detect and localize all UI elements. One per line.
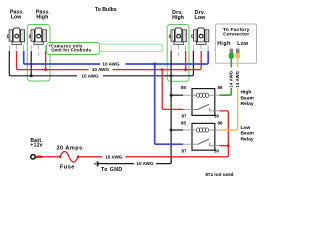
svg-text:14 AWG: 14 AWG bbox=[229, 71, 234, 88]
svg-text:10 AWG: 10 AWG bbox=[105, 154, 123, 159]
label Drv. Low bbox=[195, 10, 207, 21]
wire red fuse to label gap bbox=[78, 156, 102, 158]
relay1 pin 86 lead green bbox=[215, 88, 232, 95]
svg-text:High: High bbox=[36, 14, 48, 20]
relay2 switch bbox=[192, 139, 215, 146]
svg-text:10 AWG: 10 AWG bbox=[92, 67, 110, 72]
relay1 switch bbox=[192, 104, 215, 111]
svg-text:87: 87 bbox=[181, 114, 187, 119]
svg-text:86: 86 bbox=[217, 85, 223, 90]
svg-text:High: High bbox=[241, 90, 252, 96]
wire red battery to fuse bbox=[36, 156, 61, 158]
wire ground bus label gap right segment bbox=[103, 51, 193, 76]
junction relay2 85 bbox=[170, 129, 173, 132]
svg-text:To Bulbs: To Bulbs bbox=[95, 7, 117, 13]
relay2 coil bbox=[192, 128, 215, 132]
wire blue bus right segment bbox=[126, 51, 209, 64]
svg-text:14 AWG: 14 AWG bbox=[235, 71, 240, 88]
wire black ground right segment bbox=[156, 160, 171, 164]
label Batt +12v bbox=[30, 138, 43, 148]
svg-text:Low: Low bbox=[11, 14, 23, 20]
wire red Drv High right pin bbox=[185, 51, 187, 70]
headlamp connector Pass. Low bbox=[7, 28, 24, 51]
svg-text:87: 87 bbox=[181, 148, 187, 153]
junction Pass High ground bbox=[30, 74, 33, 77]
high beam relay box U1 bbox=[192, 89, 215, 116]
wire red bus right segment bbox=[113, 51, 202, 70]
relay1 pin 87 stub bbox=[183, 108, 192, 110]
svg-text:Beam: Beam bbox=[241, 95, 255, 101]
wire blue vertical to low relay 87 bbox=[155, 64, 183, 144]
callout note Camaros only bbox=[47, 43, 100, 55]
relay1 pin 30 lead red bbox=[215, 111, 229, 157]
svg-text:High: High bbox=[217, 41, 230, 47]
svg-text:Connector: Connector bbox=[223, 32, 249, 38]
headlamp connector Drv. Low bbox=[192, 28, 209, 51]
factory terminal High (green) bbox=[229, 49, 234, 59]
wire black ground left segment bbox=[99, 163, 135, 165]
label Low Beam Relay bbox=[241, 125, 255, 143]
junction relay1 85 bbox=[170, 94, 173, 97]
svg-text:Low: Low bbox=[241, 125, 251, 131]
svg-text:85: 85 bbox=[181, 121, 187, 126]
callout leader lines bbox=[100, 44, 163, 51]
headlamp connector Pass. High bbox=[29, 28, 46, 51]
svg-text:Low: Low bbox=[195, 15, 207, 21]
junction main vertical at ground bus bbox=[170, 74, 173, 77]
svg-text:Beam: Beam bbox=[241, 131, 255, 137]
relay1 pin labels bbox=[181, 85, 223, 118]
wire orange factory Low upper bbox=[237, 59, 239, 68]
green option box around Drv. High bbox=[167, 25, 189, 82]
relay2 pin 87 stub bbox=[183, 143, 192, 145]
svg-text:To GND: To GND bbox=[101, 167, 123, 173]
fuse F1 20 Amps bbox=[59, 152, 80, 163]
ground symbol bbox=[94, 161, 98, 166]
relay1 pin 85 lead bbox=[171, 94, 192, 96]
label Pass. Low bbox=[10, 9, 25, 20]
headlamp connector Drv. High bbox=[169, 28, 186, 51]
relay2 pin 86 lead orange bbox=[215, 88, 238, 130]
svg-text:30: 30 bbox=[214, 148, 220, 153]
wire black Drv High left pin down to relays and ground bbox=[170, 51, 172, 164]
wire black Pass Low left pin to ground bus bbox=[9, 51, 77, 76]
Pass High center pin stub bbox=[37, 53, 39, 56]
wire red vertical to high relay 87 bbox=[162, 70, 183, 110]
relay2 pin labels bbox=[181, 121, 223, 154]
svg-text:86: 86 bbox=[217, 121, 223, 126]
junction blue bus to relay feed bbox=[153, 62, 156, 65]
wire red Pass High right pin bbox=[45, 51, 47, 70]
svg-text:Omit for Firebirds: Omit for Firebirds bbox=[51, 48, 91, 53]
svg-text:20 Amps: 20 Amps bbox=[56, 145, 82, 151]
svg-text:High: High bbox=[172, 15, 184, 21]
relay2 pin 30 lead red bbox=[215, 145, 229, 147]
factory connector box bbox=[216, 24, 257, 63]
label Pass. High bbox=[36, 9, 51, 20]
svg-text:10 AWG: 10 AWG bbox=[81, 73, 99, 78]
wire red feed to relays bbox=[126, 156, 228, 158]
svg-text:+12v: +12v bbox=[30, 142, 42, 148]
svg-text:30: 30 bbox=[214, 114, 220, 119]
relay2 pin 85 lead bbox=[171, 129, 192, 131]
junction Drv High red bbox=[184, 68, 187, 71]
svg-text:10 AWG: 10 AWG bbox=[102, 62, 120, 67]
wire blue Pass Low right pin to blue bus bbox=[24, 51, 100, 64]
svg-text:85: 85 bbox=[181, 85, 187, 90]
junction relay2 30 bbox=[227, 144, 230, 147]
junction red bus to relay feed bbox=[161, 68, 164, 71]
low beam relay box U2 bbox=[192, 123, 215, 150]
junction Pass High red bbox=[44, 68, 47, 71]
wire black Pass High left pin bbox=[30, 51, 32, 76]
relay1 coil bbox=[192, 93, 215, 97]
factory terminal Low (orange) bbox=[235, 49, 240, 59]
label Drv. High bbox=[172, 10, 184, 21]
wire red Pass Low center pin to red bus bbox=[17, 51, 89, 70]
green option box around Pass. High bbox=[27, 25, 50, 82]
svg-text:Relay: Relay bbox=[241, 136, 254, 142]
label High Beam Relay bbox=[241, 90, 255, 108]
svg-text:10 AWG: 10 AWG bbox=[136, 161, 154, 166]
svg-text:Low: Low bbox=[237, 41, 248, 47]
wire green factory High to relay1 86 upper bbox=[230, 59, 232, 68]
Drv High center pin stub bbox=[177, 53, 179, 56]
svg-text:87a not used: 87a not used bbox=[205, 172, 233, 177]
battery terminal bbox=[31, 155, 35, 159]
svg-text:Fuse: Fuse bbox=[60, 165, 75, 171]
svg-text:Relay: Relay bbox=[241, 101, 254, 107]
